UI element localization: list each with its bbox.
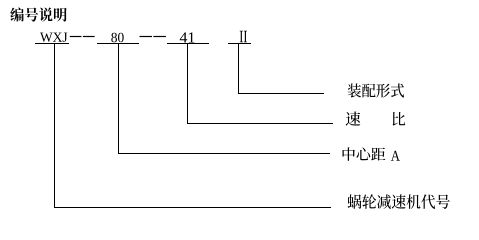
code letters WXJ [40, 33, 67, 42]
wire vertical from II [238, 44, 239, 94]
wire vertical from 80 [118, 44, 119, 154]
wire vertical from WXJ [54, 44, 55, 208]
underline under 41 [167, 43, 209, 44]
wire vertical from 41 [187, 44, 188, 124]
underline under 80 [97, 43, 139, 44]
wire horizontal to 蜗轮减速机代号 [54, 207, 331, 208]
label 中心距 [342, 147, 385, 161]
dash [140, 36, 153, 37]
code numeral II [240, 31, 247, 42]
code value 41 [180, 32, 195, 42]
dash [70, 36, 82, 37]
label 蜗轮减速机代号 [348, 194, 450, 209]
underline under II [228, 43, 251, 44]
wire horizontal to 中心距 A [118, 153, 330, 154]
label 比 [393, 112, 406, 126]
label A [391, 151, 400, 161]
title 编号说明 [10, 8, 66, 22]
code value 80 [111, 33, 123, 43]
dash [153, 36, 166, 37]
label 速 [346, 112, 361, 126]
dash [83, 36, 95, 37]
wire horizontal to 速比 [187, 123, 333, 124]
underline under WXJ [35, 43, 69, 44]
wire horizontal to 装配形式 [238, 93, 324, 94]
label 装配形式 [348, 83, 404, 97]
